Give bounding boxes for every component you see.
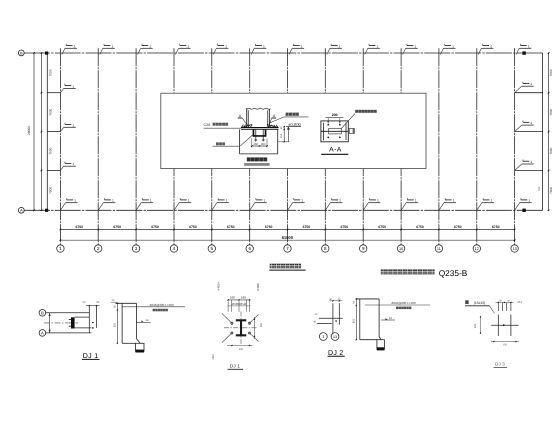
svg-text:1: 1	[111, 44, 113, 48]
svg-text:1: 1	[74, 44, 76, 48]
svg-text:6750: 6750	[227, 225, 235, 229]
svg-text:1: 1	[149, 44, 151, 48]
anchor plan right dim ticks	[254, 317, 256, 339]
column base detail title	[247, 157, 251, 161]
girt tag left wall	[60, 166, 63, 170]
girt tag right wall	[515, 164, 522, 171]
detail inset box	[161, 93, 426, 168]
svg-text:6750: 6750	[378, 225, 386, 229]
svg-text:1: 1	[263, 44, 265, 48]
column grid line 8	[324, 48, 326, 245]
svg-text:1: 1	[530, 82, 532, 86]
profile2 verticals	[359, 299, 361, 340]
svg-text:11: 11	[437, 247, 441, 251]
brace tag top grid 8	[327, 48, 330, 54]
svg-text:81000: 81000	[282, 235, 294, 240]
brace tag bottom grid 3	[136, 203, 141, 211]
svg-text:DJ 1: DJ 1	[83, 353, 99, 360]
brace tag top grid 1	[62, 48, 65, 54]
grid bubble 11	[435, 245, 442, 252]
svg-text:M-1: M-1	[518, 301, 523, 304]
svg-text:1: 1	[188, 199, 190, 203]
svg-text:10: 10	[399, 247, 403, 251]
bolt spacing dimension 300 300	[252, 145, 267, 147]
brace tag bottom grid 10	[401, 203, 406, 211]
column break line	[246, 108, 271, 109]
girt tag left wall	[60, 127, 63, 131]
left wall girt rung	[47, 92, 60, 94]
pedestal outline	[239, 129, 241, 154]
svg-text:1: 1	[491, 199, 493, 203]
svg-text:1: 1	[150, 199, 152, 203]
anchor plan extension verticals	[227, 300, 229, 312]
svg-text:M24: M24	[212, 354, 215, 360]
anchor bolts	[255, 130, 257, 142]
svg-text:320: 320	[239, 348, 244, 351]
svg-text:DJ 1: DJ 1	[230, 363, 240, 368]
profile1 web verticals	[121, 303, 123, 343]
column grid line 12	[476, 48, 478, 245]
anchor plan centerlines	[224, 327, 258, 329]
svg-text:1: 1	[530, 160, 532, 164]
svg-text:6750: 6750	[113, 225, 121, 229]
right detail leader diagonal	[490, 306, 495, 314]
grid line B horizontal	[24, 52, 543, 54]
svg-text:6750: 6750	[151, 225, 159, 229]
girt tag left wall	[60, 88, 63, 92]
anchor plan diagonal leaders	[222, 314, 232, 324]
DJ1 axis circle B	[39, 310, 46, 317]
corner column top-right	[522, 51, 525, 54]
axis circle B	[18, 50, 24, 56]
svg-text:1: 1	[490, 44, 492, 48]
svg-text:6750: 6750	[416, 225, 424, 229]
svg-text:13: 13	[512, 247, 516, 251]
overall dimension line 81000	[60, 239, 514, 241]
svg-text:C20: C20	[204, 123, 211, 127]
svg-text:1: 1	[226, 199, 228, 203]
brace tag bottom grid 5	[212, 203, 217, 211]
girt tag right wall	[515, 125, 522, 132]
svg-text:160: 160	[230, 296, 235, 300]
profile2 foot	[379, 337, 381, 340]
svg-text:1: 1	[452, 44, 454, 48]
svg-text:6750: 6750	[341, 225, 349, 229]
DJ1 axis line B	[46, 312, 90, 314]
svg-text:150: 150	[503, 343, 508, 346]
column grid line 11	[438, 48, 440, 245]
column grid line 10	[400, 48, 402, 245]
svg-text:13: 13	[333, 335, 337, 339]
brace tag top grid 13	[516, 48, 519, 54]
svg-text:7000: 7000	[549, 108, 553, 115]
A-A stiffener rect	[329, 129, 342, 134]
DJ1 axis circle A	[39, 330, 46, 337]
svg-text:1: 1	[301, 44, 303, 48]
column grid line 7	[287, 48, 289, 245]
svg-text:28000: 28000	[27, 126, 31, 135]
grid bubble 12	[473, 245, 480, 252]
brace tag top grid 3	[138, 48, 141, 54]
profile1 dim line	[116, 303, 118, 343]
anchor plan bottom dim	[227, 345, 253, 347]
svg-text:6750: 6750	[454, 225, 462, 229]
profile1 leader line and note	[122, 306, 185, 308]
svg-text:14: 14	[146, 319, 149, 322]
A-A beam flanges and web	[323, 123, 325, 141]
column grid line 3	[135, 48, 137, 245]
right detail top dim 40 40	[496, 301, 514, 303]
brace tag top grid 10	[403, 48, 406, 54]
DJ1 column flange bar	[71, 317, 75, 328]
corner column bottom-left	[45, 209, 48, 212]
brace tag bottom grid 8	[325, 203, 330, 211]
svg-text:1: 1	[112, 199, 114, 203]
DJ1 gusset lines	[75, 316, 90, 318]
svg-text:1: 1	[225, 44, 227, 48]
profile2 top plate	[356, 298, 380, 300]
grid bubble 8	[322, 245, 329, 252]
brace tag top grid 2	[100, 48, 103, 54]
grid bubble 10	[397, 245, 404, 252]
grid bubble 7	[284, 245, 291, 252]
brace tag bottom grid 12	[477, 203, 482, 211]
svg-text:Q235-B: Q235-B	[439, 268, 468, 278]
bay dimension line 6750 row	[60, 229, 514, 231]
svg-text:1: 1	[74, 199, 76, 203]
svg-text:1: 1	[528, 199, 530, 203]
svg-text:0.000: 0.000	[256, 283, 260, 291]
left wall girt rung	[47, 131, 60, 133]
grout wedge hatch right	[267, 125, 269, 128]
A-A plate outline	[321, 121, 348, 142]
left end wall line	[46, 53, 48, 210]
profile1 top plate	[116, 302, 137, 304]
svg-text:7000: 7000	[48, 147, 52, 154]
plan title anchor bolt layout	[270, 264, 274, 269]
svg-text:750: 750	[538, 186, 541, 191]
svg-text:7000: 7000	[549, 147, 553, 154]
grid bubble 6	[246, 245, 253, 252]
column grid line 4	[173, 48, 175, 245]
svg-text:14: 14	[389, 317, 392, 320]
profile1 weld leader	[136, 321, 150, 323]
brace tag bottom grid 1	[60, 203, 65, 211]
DJ1 axis line A	[46, 332, 92, 334]
girt tag right wall	[515, 86, 522, 93]
right wall girt rung	[515, 170, 543, 172]
svg-text:-60x6@200 L=100: -60x6@200 L=100	[149, 303, 174, 307]
svg-text:1: 1	[530, 121, 532, 125]
column grid line 5	[211, 48, 213, 245]
profile1 foot	[136, 339, 140, 344]
svg-text:6750: 6750	[303, 225, 311, 229]
right detail title text	[465, 300, 469, 304]
corner column top-left	[45, 52, 48, 55]
svg-text:1: 1	[376, 44, 378, 48]
svg-text:12: 12	[475, 247, 479, 251]
corner column bottom-right	[522, 209, 525, 212]
base plate	[241, 127, 279, 129]
svg-text:1: 1	[339, 199, 341, 203]
grid bubble 1	[57, 245, 64, 252]
grid bubble 2	[95, 245, 102, 252]
svg-text:4-M24: 4-M24	[217, 282, 221, 291]
grout wedge hatch left	[242, 125, 244, 128]
svg-text:850: 850	[113, 322, 116, 327]
DJ2 vertical lines	[332, 303, 334, 334]
DJ2 grid circle 13	[331, 333, 339, 341]
column grid line 9	[362, 48, 364, 245]
brace tag bottom grid 7	[288, 203, 293, 211]
svg-text:6750: 6750	[76, 225, 84, 229]
svg-text:850: 850	[352, 318, 355, 323]
grid bubble 4	[170, 245, 177, 252]
svg-text:1: 1	[414, 44, 416, 48]
svg-text:B: B	[41, 310, 44, 315]
profile2 dim line	[355, 299, 357, 340]
brace tag top grid 12	[478, 48, 481, 54]
svg-text:7000: 7000	[48, 108, 52, 115]
column grid line 13	[514, 48, 516, 245]
grid bubble 13	[511, 245, 518, 252]
right detail bolt strokes	[497, 303, 499, 311]
anchor plan column section	[236, 319, 247, 336]
left wall girt rung	[47, 170, 60, 172]
svg-text:6750: 6750	[492, 225, 500, 229]
right vertical dimension 50 150	[283, 127, 285, 142]
brace tag bottom grid 6	[250, 203, 255, 211]
DJ2 top dim marks	[330, 300, 343, 302]
svg-text:7000: 7000	[48, 187, 52, 194]
svg-text:160: 160	[241, 296, 246, 300]
brace tag bottom grid 2	[98, 203, 103, 211]
brace tag top grid 5	[213, 48, 216, 54]
svg-text:300: 300	[253, 143, 258, 146]
svg-text:1: 1	[72, 84, 74, 88]
DJ2 grid circle 1	[319, 333, 327, 341]
svg-text:150: 150	[280, 133, 283, 138]
svg-text:200: 200	[332, 113, 338, 117]
svg-text:A: A	[41, 331, 44, 336]
column grid line 6	[249, 48, 251, 245]
right wall girt rung	[515, 131, 543, 133]
svg-text:1: 1	[339, 44, 341, 48]
A-A side tab	[348, 129, 354, 134]
DJ1 vertical edge lines	[88, 306, 90, 333]
profile2 leader and note	[365, 304, 430, 306]
anchor plan top dim line	[228, 299, 251, 301]
anchor plan bolts	[231, 322, 233, 324]
DJ1 centerline	[44, 322, 78, 324]
embedded anchor channel	[253, 130, 267, 137]
brace tag bottom grid 9	[363, 203, 368, 211]
grid bubble 5	[208, 245, 215, 252]
DJ2 horizontal lines	[319, 317, 343, 319]
brace tag bottom grid 13	[515, 203, 520, 211]
svg-text:1: 1	[301, 199, 303, 203]
grid bubble 3	[132, 245, 139, 252]
right wall girt rung	[515, 92, 543, 94]
A-A bolts	[327, 124, 329, 126]
grid line A horizontal	[24, 209, 543, 211]
brace tag top grid 9	[365, 48, 368, 54]
leader base plate text	[286, 113, 289, 116]
svg-text:1: 1	[72, 123, 74, 127]
svg-text:A-A: A-A	[329, 147, 342, 154]
A-A leader note text	[341, 114, 355, 129]
note text Q235-B	[381, 269, 386, 274]
DJ2 bolt	[335, 320, 337, 322]
svg-text:7000: 7000	[549, 187, 553, 194]
brace tag top grid 7	[289, 48, 292, 54]
svg-text:1: 1	[415, 199, 417, 203]
svg-text:6750: 6750	[189, 225, 197, 229]
brace tag top grid 11	[440, 48, 443, 54]
brace tag top grid 6	[251, 48, 254, 54]
svg-text:7000: 7000	[48, 69, 52, 76]
svg-text:160: 160	[260, 322, 263, 327]
svg-text:-60x6@200 L=100: -60x6@200 L=100	[391, 301, 416, 305]
DJ1 top dim	[86, 305, 100, 307]
axis circle A	[18, 207, 24, 213]
svg-text:6750: 6750	[265, 225, 273, 229]
DJ1 bolts	[92, 322, 94, 324]
grid bubble 9	[360, 245, 367, 252]
steel column flanges	[246, 109, 248, 128]
svg-text:150: 150	[474, 323, 477, 328]
brace tag bottom grid 11	[439, 203, 444, 211]
right detail plan lines	[497, 315, 499, 337]
svg-text:1: 1	[187, 44, 189, 48]
right detail bottom dim	[491, 341, 519, 343]
svg-text:7000: 7000	[549, 69, 553, 76]
svg-text:DJ 3: DJ 3	[495, 362, 505, 367]
column grid line 2	[97, 48, 99, 245]
right end wall line	[542, 53, 544, 210]
left dimension line inner	[41, 53, 43, 210]
svg-text:1: 1	[528, 44, 530, 48]
brace tag bottom grid 4	[174, 203, 179, 211]
svg-text:1: 1	[453, 199, 455, 203]
left dimension line outer	[33, 53, 35, 210]
leader cushion text	[216, 142, 219, 145]
profile2 weld leader	[381, 319, 395, 321]
svg-text:(15x15): (15x15)	[474, 301, 486, 305]
svg-text:1: 1	[72, 162, 74, 166]
right dimension line	[548, 53, 550, 210]
svg-text:1: 1	[377, 199, 379, 203]
svg-text:1: 1	[263, 199, 265, 203]
brace tag top grid 4	[176, 48, 179, 54]
profile1 top-left small dims	[111, 301, 118, 303]
DJ1 span arrows	[49, 313, 51, 333]
column grid line 1	[59, 48, 61, 245]
svg-text:300: 300	[261, 143, 266, 146]
